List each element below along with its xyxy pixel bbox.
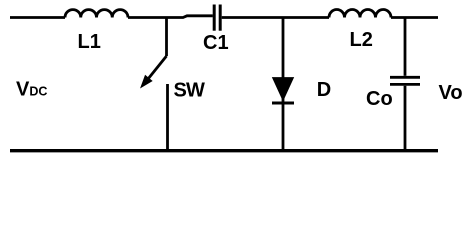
inductor L2 <box>329 10 391 18</box>
svg-text:Vo: Vo <box>439 82 463 104</box>
svg-text:L2: L2 <box>350 29 373 51</box>
svg-text:C1: C1 <box>203 32 229 54</box>
diode D cathode bar <box>272 102 294 105</box>
capacitor Co lower wire <box>404 86 407 151</box>
svg-text:L1: L1 <box>78 31 101 53</box>
capacitor Co upper wire <box>404 18 407 76</box>
switch SW arrowhead <box>141 76 152 88</box>
capacitor C1 right plate <box>219 5 222 31</box>
capacitor Co top plate <box>390 76 420 79</box>
ground rail <box>10 149 438 152</box>
switch SW upper stem <box>165 18 168 57</box>
wire L2 to output node <box>391 16 438 19</box>
diode D triangle <box>273 78 294 101</box>
wire diode node to L2 <box>283 16 329 19</box>
svg-text:VDC: VDC <box>16 79 47 101</box>
capacitor C1 left plate <box>213 5 216 31</box>
svg-text:SW: SW <box>174 79 206 101</box>
wire L1 to C1 with jog <box>128 16 213 18</box>
inductor L1 <box>65 10 128 18</box>
wire SW to ground rail <box>166 84 169 151</box>
switch SW arm <box>147 56 167 80</box>
capacitor Co bottom plate <box>390 83 420 86</box>
diode D wire <box>282 18 285 152</box>
svg-text:Co: Co <box>366 88 393 110</box>
wire C1 to diode node <box>222 16 283 19</box>
wire input top-left <box>10 16 65 19</box>
svg-text:D: D <box>317 79 331 101</box>
